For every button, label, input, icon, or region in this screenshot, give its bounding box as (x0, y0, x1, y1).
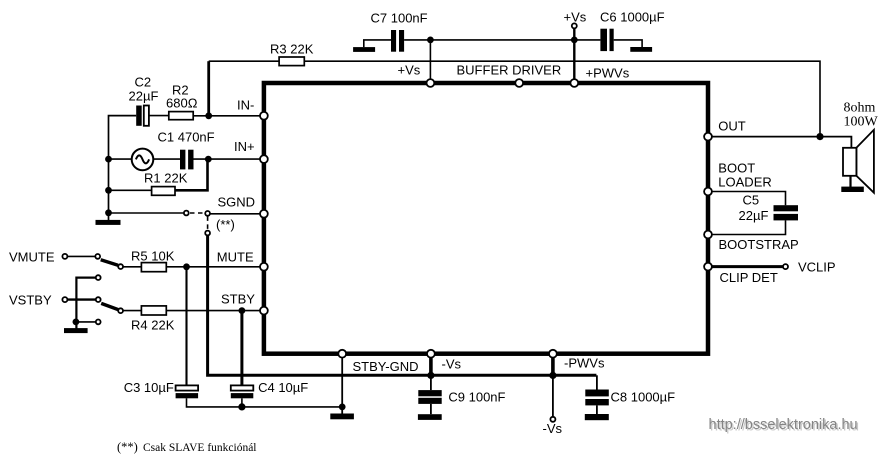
svg-text:22µF: 22µF (739, 208, 769, 223)
wire R4 to STBY pin (166, 310, 264, 312)
pin -PWVs (549, 350, 557, 358)
svg-text:C9 100nF: C9 100nF (448, 389, 505, 404)
pin +PWVs (570, 79, 578, 87)
svg-text:Csak SLAVE funkciónál: Csak SLAVE funkciónál (143, 442, 257, 454)
node stbygnd junction (339, 404, 346, 411)
svg-text:STBY: STBY (221, 292, 255, 307)
pin OUT (704, 133, 712, 141)
pin BOOTSTRAP (704, 231, 712, 239)
wire CLIP DET to VCLIP (708, 265, 783, 268)
wire dashed down from contact b (207, 216, 209, 230)
switch stby lever (101, 303, 118, 309)
capacitor C1 (158, 130, 215, 170)
pin BOOT LOADER (704, 188, 712, 196)
wire SGND from rail (109, 212, 184, 214)
ground (speaker) (841, 187, 864, 192)
svg-text:100W: 100W (844, 115, 879, 130)
pin STBY (260, 307, 268, 315)
node junction at +Vs rail (571, 37, 578, 44)
wire rail corner down to C8 (596, 375, 598, 389)
wire STBY junction down to C4 (240, 311, 243, 386)
capacitor C7 (371, 11, 428, 52)
resistor R2 (166, 83, 198, 120)
wire MUTE junction down to C3 (185, 267, 187, 386)
switch mute lever (101, 260, 118, 266)
IC box U1 (264, 83, 708, 354)
svg-text:OUT: OUT (718, 119, 746, 134)
wire R1 up to IN+ (175, 159, 208, 190)
capacitor C3 (124, 380, 198, 399)
svg-text:IN-: IN- (237, 98, 254, 113)
wire BOOT LOADER to C5 (708, 192, 786, 206)
node stby ground junction (73, 319, 80, 326)
ground (C8) (585, 414, 609, 420)
wire C6 to ground (614, 40, 642, 47)
svg-text:VMUTE: VMUTE (9, 250, 55, 265)
wire -PWVs pin stub (551, 354, 555, 376)
wire C7 to +Vs node (404, 39, 574, 41)
svg-text:LOADER: LOADER (718, 175, 771, 190)
wire C9 to ground (430, 404, 432, 414)
capacitor C8 (585, 389, 675, 405)
svg-text:IN+: IN+ (234, 139, 255, 154)
switch slave contact c (205, 231, 210, 236)
wire dashed SGND (190, 212, 205, 214)
svg-text:C3 10µF: C3 10µF (124, 380, 174, 395)
svg-text:C1 470nF: C1 470nF (158, 130, 215, 145)
svg-text:CLIP DET: CLIP DET (720, 270, 778, 285)
wire feedback R3 to OUT (304, 61, 820, 136)
node -Vs rail junction (427, 372, 434, 379)
terminal -Vs bottom (543, 417, 563, 436)
ground (C7) (353, 40, 391, 52)
switch stby pole (96, 297, 101, 302)
wire +Vs junction to C6 (574, 39, 600, 41)
ground (input) (96, 220, 121, 225)
pin IN+ (260, 155, 268, 163)
node IN- junction (205, 112, 212, 119)
capacitor C2 (129, 75, 159, 126)
ground (VSTBY) (64, 328, 88, 333)
wire C2 to R2 (149, 115, 169, 117)
speaker LS1 (843, 101, 879, 193)
svg-text:SGND: SGND (218, 195, 256, 210)
svg-text:C4 10µF: C4 10µF (258, 380, 308, 395)
switch stby throw (118, 308, 123, 313)
wire source to C1 (153, 158, 180, 160)
svg-text:VSTBY: VSTBY (9, 293, 52, 308)
pin STBY-GND (338, 350, 346, 358)
wire C5 to BOOTSTRAP (707, 220, 785, 234)
ground (C9) (418, 414, 442, 420)
wire C1 to IN+ pin (194, 158, 264, 160)
wire OUT to speaker (708, 137, 851, 148)
wire feedback left of R3 (209, 60, 279, 62)
resistor R5 (131, 249, 175, 272)
wire +Vs terminal down to +PWVs pin (573, 29, 575, 83)
node R1 junction (105, 187, 112, 194)
wire left vertical input rail (109, 116, 137, 220)
node OUT feedback junction (816, 133, 823, 140)
wire switch to R5 (123, 266, 141, 268)
pin CLIP DET (704, 263, 712, 271)
wire SGND to pin (211, 213, 264, 215)
svg-text:BUFFER DRIVER: BUFFER DRIVER (457, 63, 562, 78)
switch stby top contact (96, 275, 101, 280)
svg-text:+Vs: +Vs (398, 63, 421, 78)
resistor R3 (270, 42, 314, 66)
node source junction (105, 156, 112, 163)
terminal VSTBY (9, 293, 67, 308)
switch SGND contact b (205, 211, 210, 216)
wire VMUTE to switch (68, 255, 95, 257)
ground (STBY-GND) (330, 414, 354, 420)
svg-text:+Vs: +Vs (564, 10, 587, 25)
svg-text:8ohm: 8ohm (844, 101, 876, 116)
svg-text:R3 22K: R3 22K (270, 42, 314, 57)
resistor R4 (131, 306, 175, 333)
svg-text:C2: C2 (135, 75, 152, 90)
svg-text:R1 22K: R1 22K (144, 171, 188, 186)
node C4 gnd junction (238, 403, 245, 410)
capacitor C5 (739, 193, 799, 224)
wire down to +Vs pin (429, 40, 431, 83)
wire R3 down to IN- (207, 61, 210, 116)
svg-text:C6 1000µF: C6 1000µF (600, 10, 665, 25)
wire slave contact down to -PWVs rail (208, 236, 597, 375)
svg-text:-Vs: -Vs (543, 421, 563, 436)
svg-text:BOOT: BOOT (718, 161, 755, 176)
svg-text:C7 100nF: C7 100nF (371, 11, 428, 26)
svg-text:VCLIP: VCLIP (798, 260, 836, 275)
wire top contact to ground rail (76, 278, 95, 329)
wire -PWVs junction down to -Vs terminal (552, 375, 554, 416)
node -PWVs rail junction (549, 372, 556, 379)
node IN+ junction (205, 156, 212, 163)
svg-text:C5: C5 (743, 193, 760, 208)
capacitor C9 (418, 389, 505, 404)
svg-text:680Ω: 680Ω (166, 96, 198, 111)
wire R2 to IN- pin (193, 115, 264, 117)
pin IN- (260, 112, 268, 120)
svg-text:http://bsselektronika.hu: http://bsselektronika.hu (709, 417, 858, 433)
wire -Vs pin stub (429, 354, 433, 376)
pin BUFFER DRIVER (515, 79, 523, 87)
node SGND rail junction (105, 209, 112, 216)
capacitor C6 (600, 10, 665, 52)
wire R5 to MUTE pin (166, 266, 264, 268)
switch stby bottom contact (96, 320, 101, 325)
node STBY junction (239, 307, 246, 314)
svg-text:R4 22K: R4 22K (131, 318, 175, 333)
pin -Vs bottom (427, 350, 435, 358)
wire rail to R1 (109, 189, 152, 191)
terminal VMUTE (9, 250, 67, 265)
node +Vs junction above pin 7 (427, 37, 434, 44)
resistor R1 (144, 171, 188, 196)
svg-text:MUTE: MUTE (217, 250, 254, 265)
svg-text:C8 1000µF: C8 1000µF (611, 389, 676, 404)
node MUTE junction (183, 263, 190, 270)
terminal VCLIP (783, 260, 836, 275)
wire rail to source (109, 158, 133, 160)
terminal +Vs (564, 10, 587, 29)
wire VSTBY to switch pole (68, 298, 96, 300)
wire C3 to gnd line (187, 398, 343, 407)
svg-text:22µF: 22µF (129, 89, 159, 104)
pin SGND (260, 210, 268, 218)
wire C8 to ground (596, 405, 598, 414)
switch mute pole (95, 254, 100, 259)
svg-text:-Vs: -Vs (442, 357, 462, 372)
wire bottom contact to ground (76, 321, 95, 323)
svg-text:(**): (**) (216, 217, 235, 232)
wire switch to R4 (123, 310, 141, 312)
svg-text:-PWVs: -PWVs (564, 356, 605, 371)
svg-text:STBY-GND: STBY-GND (353, 359, 419, 374)
switch mute throw (118, 264, 123, 269)
svg-text:(**): (**) (117, 440, 138, 454)
wire STBY-GND pin to ground (341, 354, 343, 414)
pin +Vs top (427, 79, 435, 87)
svg-text:BOOTSTRAP: BOOTSTRAP (719, 237, 799, 252)
svg-text:+PWVs: +PWVs (586, 66, 630, 81)
svg-text:R5 10K: R5 10K (131, 249, 175, 264)
ground (C6) (630, 47, 652, 52)
pin MUTE (260, 263, 268, 271)
capacitor C4 (231, 380, 308, 399)
switch SGND contact a (184, 211, 189, 216)
wire speaker to ground (849, 176, 851, 188)
wire C4 to gnd line (241, 398, 243, 407)
source V1 (132, 149, 154, 171)
